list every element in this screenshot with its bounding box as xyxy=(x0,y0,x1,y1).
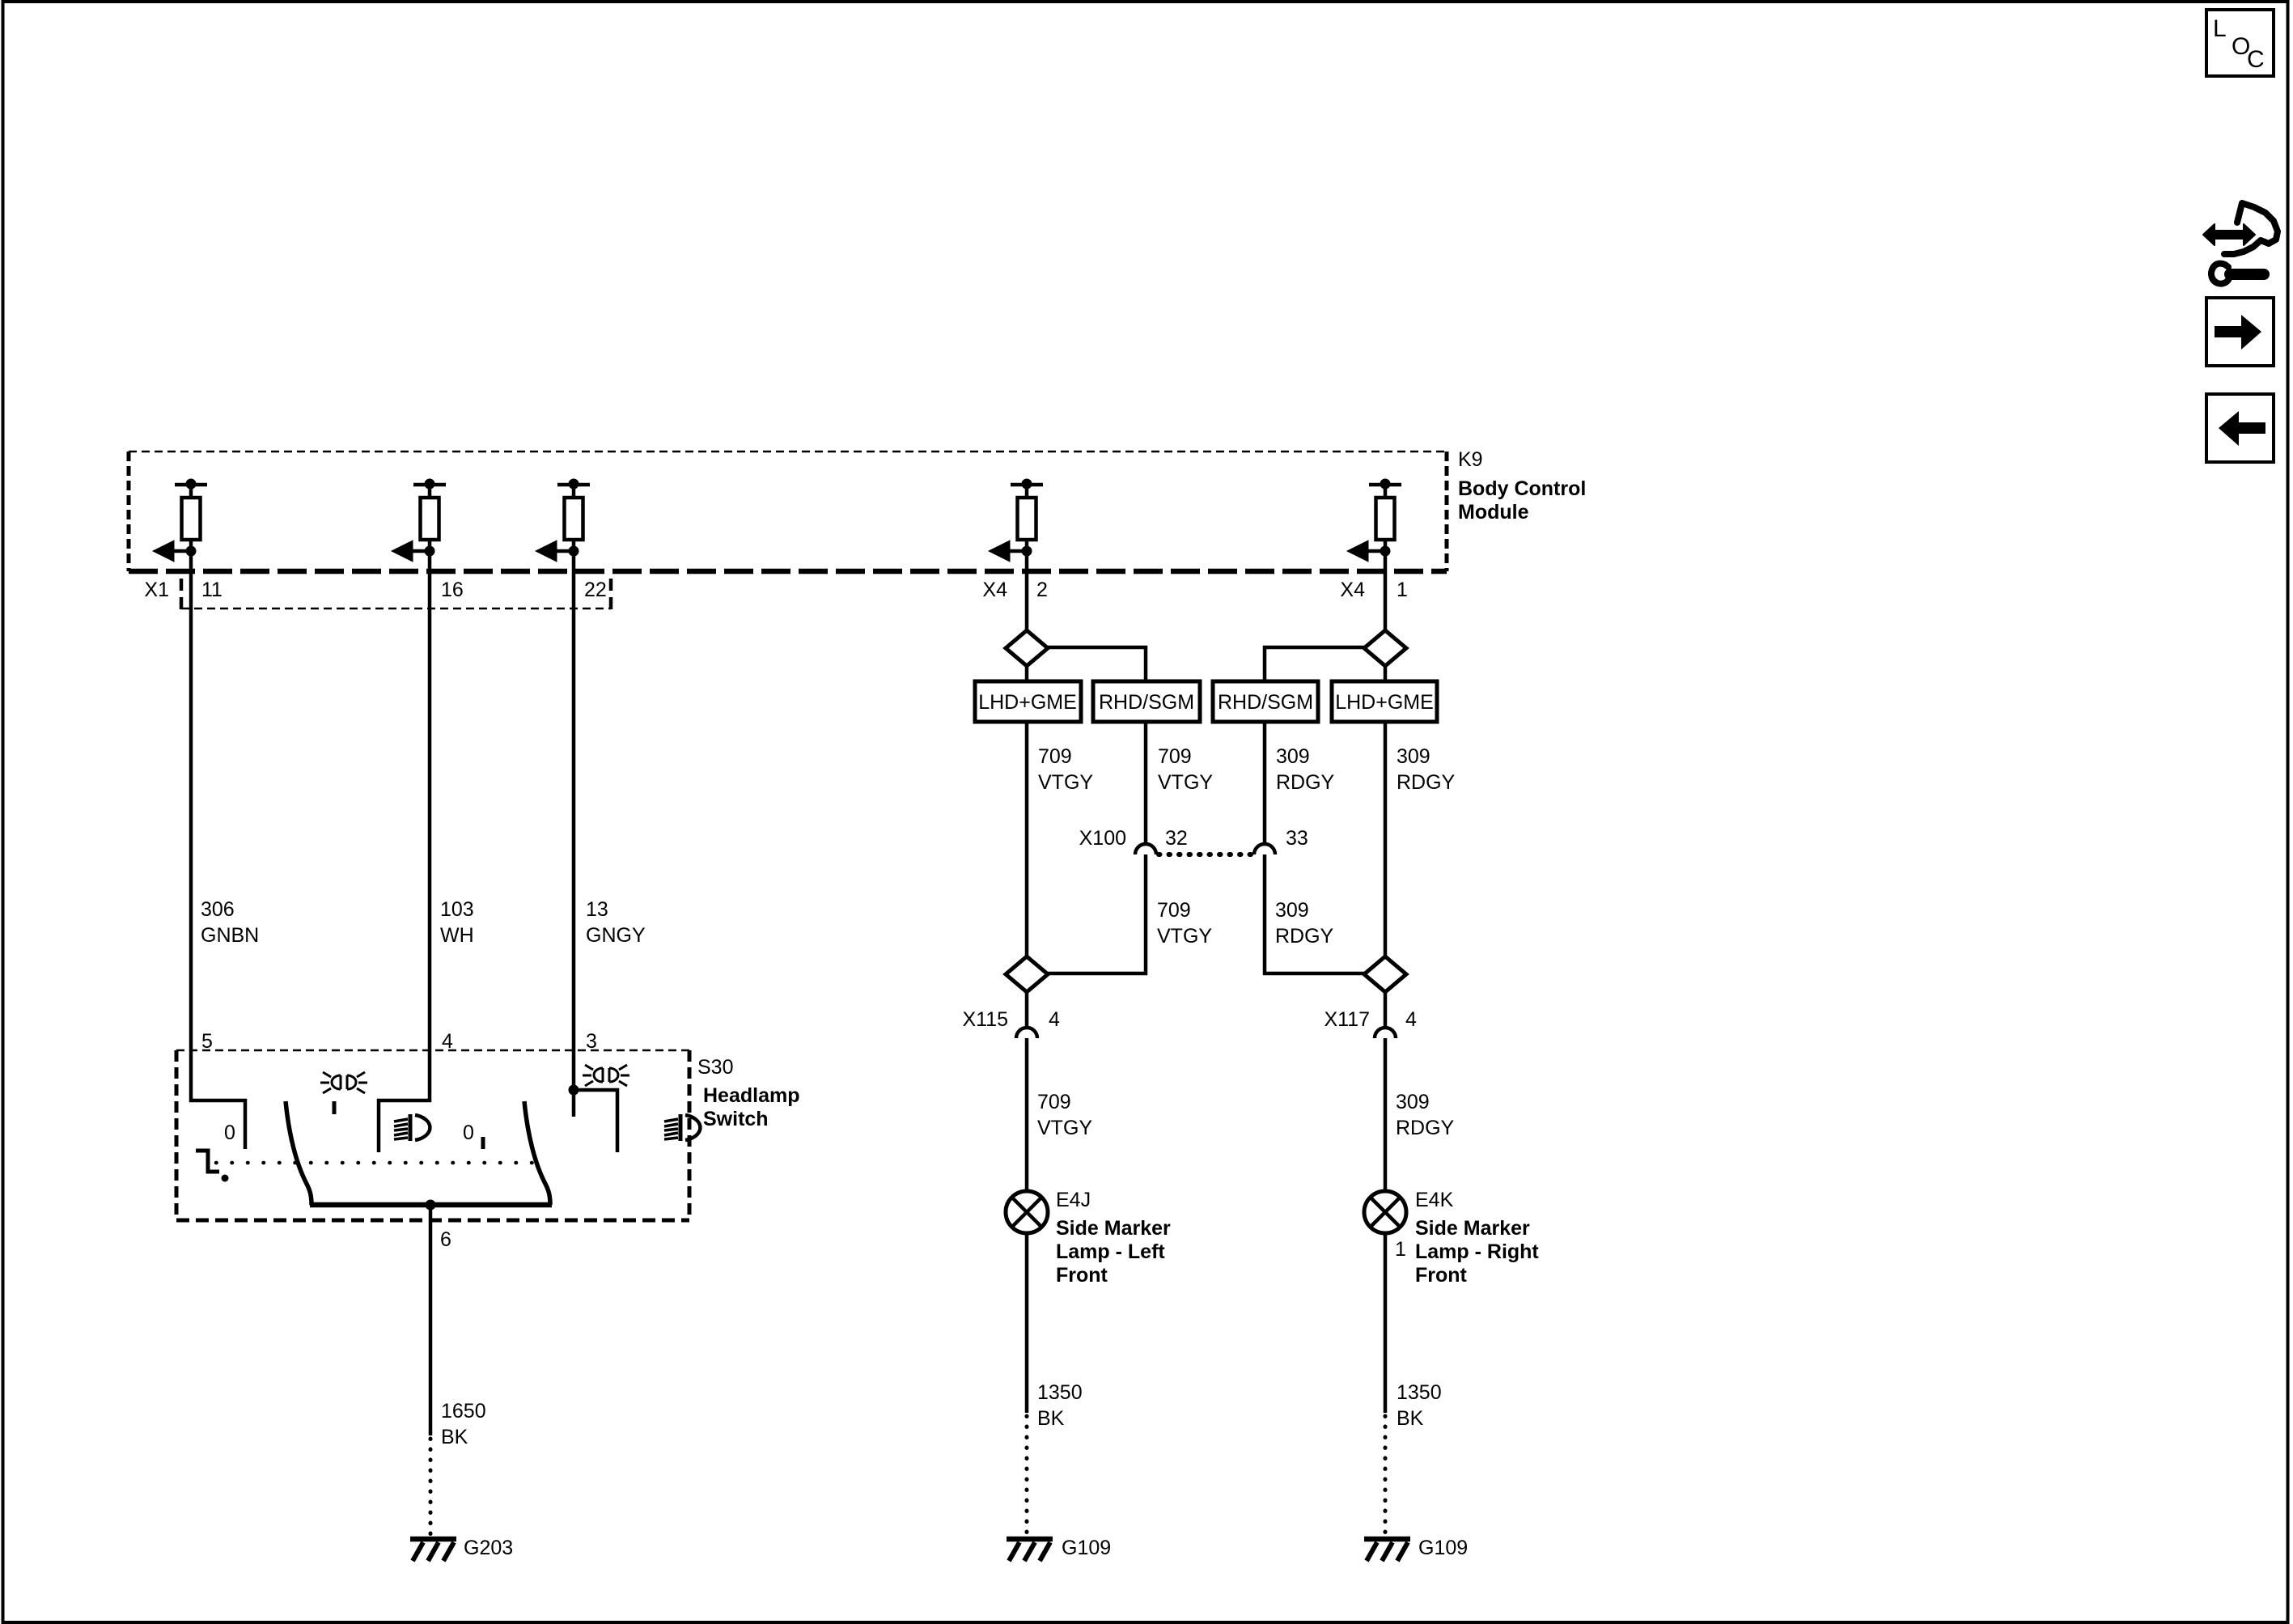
wire 709 VTGY (from box2) xyxy=(1144,722,1148,844)
version box RHD/SGM (2) xyxy=(1093,681,1200,722)
junction dot common xyxy=(426,1200,436,1211)
svg-text:X115: X115 xyxy=(962,1008,1008,1031)
svg-text:22: 22 xyxy=(584,579,607,601)
lamp E4K xyxy=(1364,1191,1406,1233)
svg-text:4: 4 xyxy=(1049,1008,1060,1031)
BCM pin X4-1 driver group xyxy=(1347,479,1401,562)
wire diamond to LHD+GME box xyxy=(1025,666,1029,681)
wire 13 GNGY xyxy=(572,540,576,1117)
svg-text:309: 309 xyxy=(1397,745,1430,768)
svg-text:13: 13 xyxy=(586,898,608,921)
svg-text:309: 309 xyxy=(1396,1091,1430,1113)
svg-text:RDGY: RDGY xyxy=(1397,771,1456,794)
svg-text:0: 0 xyxy=(463,1122,474,1144)
splice diamond (left top) xyxy=(1006,630,1048,666)
svg-text:RDGY: RDGY xyxy=(1275,925,1334,948)
resistor BCM driver 1 xyxy=(182,498,201,540)
svg-text:Module: Module xyxy=(1458,501,1529,524)
svg-text:C: C xyxy=(2247,46,2265,73)
contact tick (mid) xyxy=(481,1137,485,1149)
svg-text:GNBN: GNBN xyxy=(201,924,259,947)
switch wiper 1 xyxy=(286,1101,312,1205)
junction dot xyxy=(569,1085,579,1096)
svg-text:1350: 1350 xyxy=(1037,1381,1083,1404)
svg-text:16: 16 xyxy=(441,579,464,601)
park position step symbol xyxy=(196,1151,219,1172)
svg-text:X1: X1 xyxy=(144,579,169,601)
svg-text:709: 709 xyxy=(1038,745,1072,768)
dotted connector line X100 xyxy=(1159,852,1252,857)
svg-text:Lamp - Right: Lamp - Right xyxy=(1415,1240,1539,1263)
svg-text:E4K: E4K xyxy=(1415,1189,1454,1211)
page icon harness xyxy=(2203,203,2278,284)
page icon LOC box xyxy=(2206,10,2274,76)
svg-text:33: 33 xyxy=(1286,827,1308,850)
svg-text:4: 4 xyxy=(1405,1008,1417,1031)
junction dot xyxy=(186,546,197,557)
wire branch to high beam contact xyxy=(574,1090,617,1152)
svg-text:2: 2 xyxy=(1036,579,1048,601)
switch S30 dashed box xyxy=(176,1050,689,1220)
svg-text:6: 6 xyxy=(440,1228,451,1251)
svg-text:Side Marker: Side Marker xyxy=(1056,1217,1171,1240)
svg-text:709: 709 xyxy=(1157,899,1191,922)
svg-text:RHD/SGM: RHD/SGM xyxy=(1218,691,1313,714)
splice diamond (left bottom) xyxy=(1006,956,1048,992)
svg-text:VTGY: VTGY xyxy=(1038,771,1093,794)
wire 1650 BK xyxy=(429,1205,433,1435)
svg-text:S30: S30 xyxy=(697,1056,733,1079)
svg-text:BK: BK xyxy=(1397,1407,1424,1430)
svg-text:RDGY: RDGY xyxy=(1276,771,1335,794)
svg-text:LHD+GME: LHD+GME xyxy=(978,691,1077,714)
svg-text:1650: 1650 xyxy=(441,1400,486,1423)
BCM pin 11 driver group xyxy=(153,479,207,562)
wire dotted to G109 (right) xyxy=(1384,1416,1388,1536)
svg-text:VTGY: VTGY xyxy=(1157,925,1212,948)
connector X1 dashed outline xyxy=(181,579,611,613)
svg-text:Side Marker: Side Marker xyxy=(1415,1217,1530,1240)
svg-text:LHD+GME: LHD+GME xyxy=(1335,691,1434,714)
connector X115 half-circle xyxy=(1016,1028,1037,1038)
connector X100 pin 32 half-circle xyxy=(1135,844,1156,854)
wire 709 VTGY (below X100) xyxy=(1048,854,1146,973)
switch common bar xyxy=(310,1202,552,1208)
ground G109 (left) xyxy=(1007,1539,1053,1561)
svg-text:WH: WH xyxy=(440,924,474,947)
svg-text:G109: G109 xyxy=(1418,1537,1468,1559)
terminal T-bar xyxy=(175,479,207,498)
wire 309 RDGY to lamp xyxy=(1384,1038,1388,1191)
svg-text:Headlamp: Headlamp xyxy=(703,1084,799,1107)
svg-text:X100: X100 xyxy=(1079,827,1126,850)
wire to X115 xyxy=(1025,992,1029,1028)
svg-text:Lamp - Left: Lamp - Left xyxy=(1056,1240,1165,1263)
module K9 Body Control Module dashed box xyxy=(129,452,1447,571)
version box LHD+GME (4) xyxy=(1332,681,1437,722)
wire dotted to G203 xyxy=(429,1439,433,1536)
svg-text:Front: Front xyxy=(1056,1264,1108,1287)
connector X117 half-circle xyxy=(1375,1028,1396,1038)
low beam headlamp icon xyxy=(394,1114,430,1141)
svg-text:Switch: Switch xyxy=(703,1108,769,1130)
svg-text:1350: 1350 xyxy=(1397,1381,1442,1404)
mechanical link dotted line xyxy=(216,1161,535,1165)
parking lamp icon (right) xyxy=(583,1065,629,1086)
svg-text:VTGY: VTGY xyxy=(1037,1117,1092,1139)
wire to X117 xyxy=(1384,992,1388,1028)
svg-text:L: L xyxy=(2213,15,2227,42)
svg-text:X4: X4 xyxy=(982,579,1007,601)
svg-text:E4J: E4J xyxy=(1056,1189,1091,1211)
parking lamp icon (left) xyxy=(320,1072,367,1093)
svg-text:Front: Front xyxy=(1415,1264,1468,1287)
ground G109 (right) xyxy=(1364,1539,1410,1561)
connector X100 pin 33 half-circle xyxy=(1254,844,1275,854)
ground G203 xyxy=(410,1539,456,1561)
svg-text:103: 103 xyxy=(440,898,474,921)
svg-text:1: 1 xyxy=(1397,579,1408,601)
svg-text:11: 11 xyxy=(201,579,223,601)
branch wire to RHD/SGM box xyxy=(1048,647,1146,681)
wire 309 RDGY below X100 xyxy=(1265,854,1364,973)
branch wire to RHD/SGM box (right) xyxy=(1265,647,1364,681)
svg-text:0: 0 xyxy=(224,1122,235,1144)
switch wiper 2 xyxy=(524,1101,550,1205)
svg-text:RHD/SGM: RHD/SGM xyxy=(1099,691,1194,714)
wire from X4-1 to splice diamond xyxy=(1384,540,1388,630)
page icon arrow right box xyxy=(2206,298,2274,366)
wire 709 VTGY (from box1) xyxy=(1025,722,1029,956)
splice diamond (right top) xyxy=(1364,630,1406,666)
wire from X4-2 to splice diamond xyxy=(1025,540,1029,630)
high beam headlamp icon xyxy=(664,1114,700,1141)
BCM pin 22 driver group xyxy=(536,479,590,562)
svg-text:306: 306 xyxy=(201,898,235,921)
wire 309 RDGY (from box4) xyxy=(1384,722,1388,956)
contact tick (park) xyxy=(333,1101,337,1114)
svg-text:K9: K9 xyxy=(1458,448,1483,471)
wire 1350 BK (right) xyxy=(1384,1233,1388,1413)
BCM pin X4-2 driver group xyxy=(989,479,1043,562)
svg-text:GNGY: GNGY xyxy=(586,924,646,947)
svg-text:709: 709 xyxy=(1037,1091,1071,1113)
svg-text:X117: X117 xyxy=(1324,1008,1370,1031)
svg-text:709: 709 xyxy=(1158,745,1192,768)
wire 306 GNBN xyxy=(191,540,245,1149)
wire 709 VTGY to lamp xyxy=(1025,1038,1029,1191)
wire 1350 BK (left) xyxy=(1025,1233,1029,1413)
page icon arrow left box xyxy=(2206,394,2274,462)
version box LHD+GME (1) xyxy=(975,681,1081,722)
svg-text:32: 32 xyxy=(1165,827,1188,850)
svg-text:X4: X4 xyxy=(1340,579,1365,601)
svg-text:G109: G109 xyxy=(1062,1537,1111,1559)
svg-text:309: 309 xyxy=(1275,899,1309,922)
svg-text:Body Control: Body Control xyxy=(1458,477,1586,500)
signal arrow xyxy=(153,541,191,562)
svg-text:RDGY: RDGY xyxy=(1396,1117,1455,1139)
wire 309 RDGY (from box3) xyxy=(1263,722,1267,844)
svg-text:BK: BK xyxy=(1037,1407,1065,1430)
svg-text:BK: BK xyxy=(441,1426,468,1448)
svg-text:309: 309 xyxy=(1276,745,1310,768)
version box RHD/SGM (3) xyxy=(1213,681,1318,722)
lamp E4J xyxy=(1006,1191,1048,1233)
wire dotted to G109 (left) xyxy=(1025,1416,1029,1536)
BCM pin 16 driver group xyxy=(392,479,446,562)
park contact dot xyxy=(222,1175,229,1182)
svg-text:G203: G203 xyxy=(464,1537,513,1559)
wire diamond to LHD+GME box (right) xyxy=(1384,666,1388,681)
svg-text:VTGY: VTGY xyxy=(1158,771,1213,794)
wire 103 WH xyxy=(379,540,430,1152)
splice diamond (right bottom) xyxy=(1364,956,1406,992)
svg-text:1: 1 xyxy=(1395,1238,1406,1261)
